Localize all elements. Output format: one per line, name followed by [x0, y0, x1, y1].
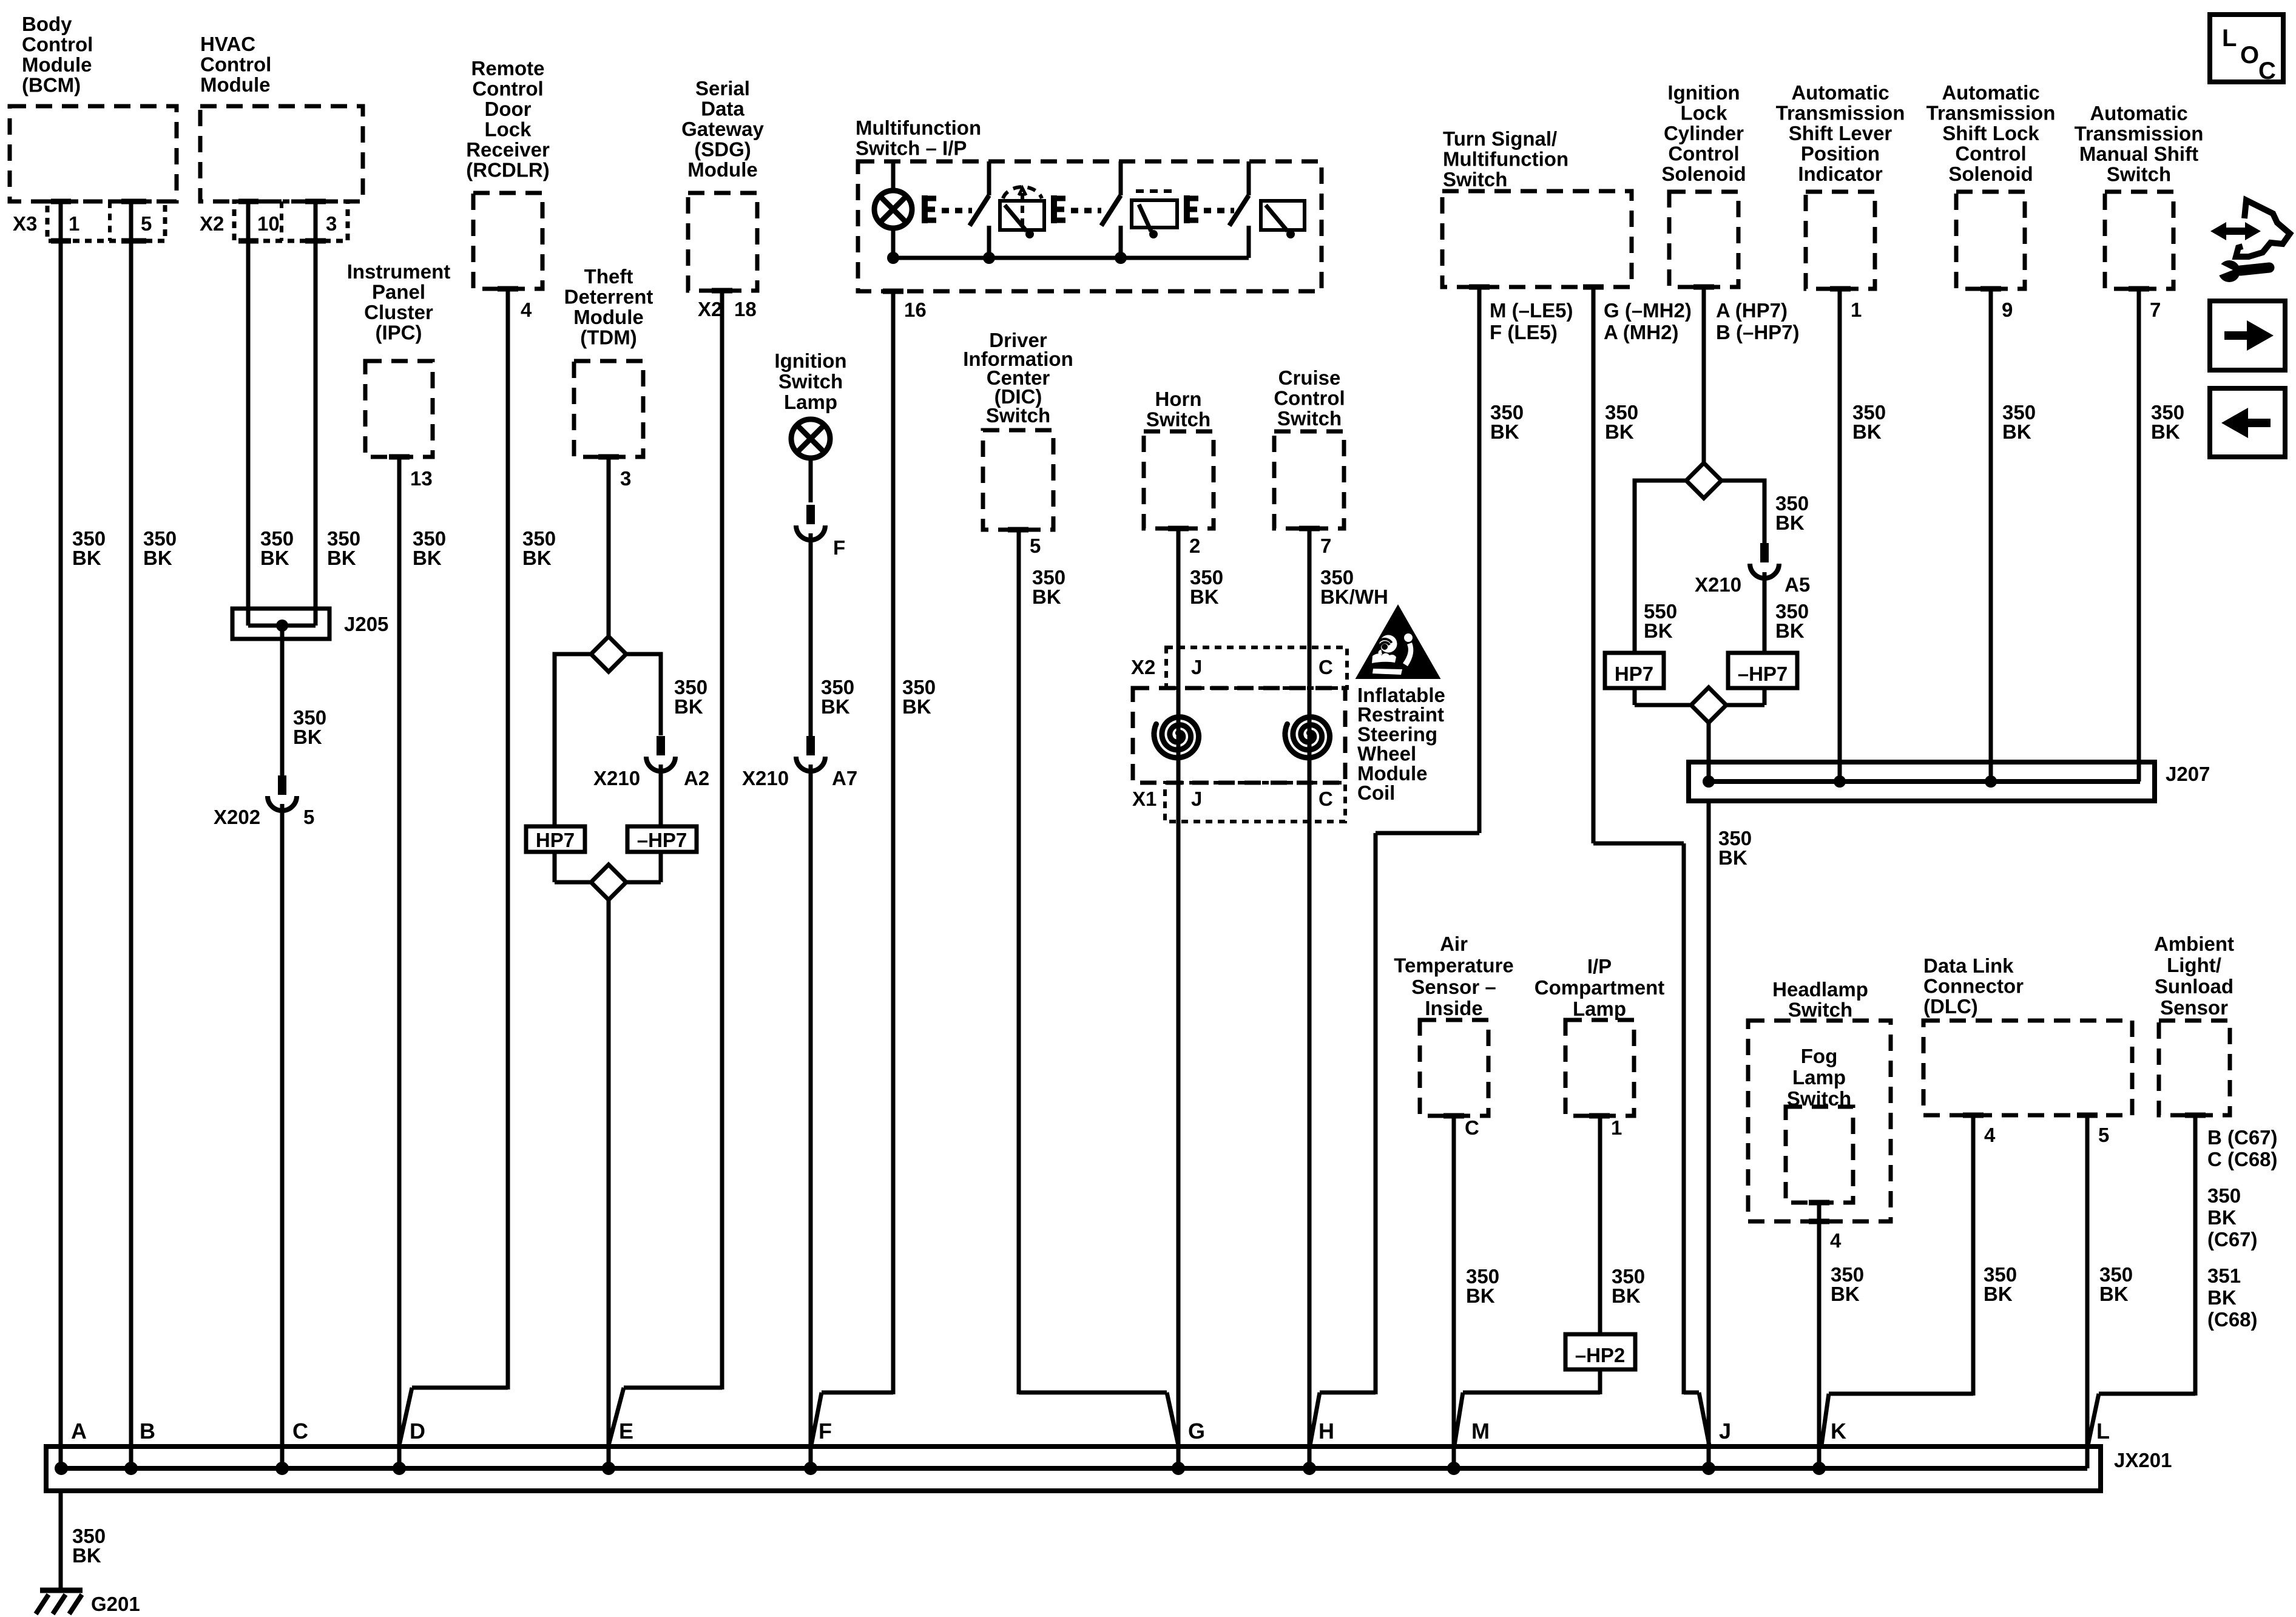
svg-text:J205: J205: [344, 613, 388, 635]
wire: JX201 to ground G201 (350 BK): [59, 1491, 63, 1590]
wire label 350 BK (right branch lower): [1775, 600, 1809, 642]
switch contact S3: [1229, 161, 1249, 258]
svg-text:Control: Control: [1955, 143, 2026, 165]
pin label 4 (RCDLR): [521, 299, 532, 321]
pin label 5 (DIC): [1030, 535, 1041, 557]
pin label 7 (cruise switch): [1320, 535, 1331, 557]
splice J205: [232, 609, 388, 775]
svg-text:X2: X2: [1131, 656, 1155, 678]
wire label 350 BK (DLC pin 5): [2099, 1263, 2133, 1305]
svg-text:Multifunction: Multifunction: [856, 116, 981, 139]
svg-text:–HP7: –HP7: [637, 829, 687, 851]
svg-text:9: 9: [2002, 299, 2013, 321]
wiper symbol 2 (dashed line above): [1132, 191, 1177, 238]
svg-text:Switch: Switch: [1277, 407, 1342, 430]
splice diamond on TDM ground wire: [591, 636, 626, 672]
wire label 350 BK (C67): [2207, 1184, 2258, 1251]
wire label 350 BK (I/P compartment lamp): [1612, 1265, 1645, 1307]
module box: Air Temperature Sensor - Inside: [1394, 933, 1513, 1116]
wire: DLC pin 5 to node L (350 BK): [2085, 1115, 2090, 1468]
svg-text:Transmission: Transmission: [1926, 102, 2056, 124]
svg-text:Temperature: Temperature: [1394, 954, 1513, 976]
svg-text:Sensor: Sensor: [2160, 996, 2228, 1019]
svg-text:1: 1: [1851, 299, 1862, 321]
splice diamond (ignition lock solenoid): [1686, 463, 1721, 498]
module box: Automatic Transmission Shift Lock Control Solenoid: [1926, 81, 2056, 289]
svg-text:Module: Module: [573, 306, 643, 328]
junction dot node H: [1303, 1462, 1316, 1475]
lower splice diamond (ignition lock): [1635, 687, 1764, 723]
wire label 350 BK (TS/MF switch G/A): [1605, 401, 1638, 443]
svg-text:Lock: Lock: [484, 118, 532, 141]
svg-text:X3: X3: [13, 212, 37, 235]
svg-text:Solenoid: Solenoid: [1948, 163, 2033, 185]
ground splice pack JX201: [46, 1447, 2172, 1491]
svg-text:Module: Module: [22, 53, 92, 76]
svg-text:K: K: [1831, 1419, 1846, 1443]
svg-text:3: 3: [326, 212, 337, 235]
svg-text:Serial: Serial: [695, 77, 750, 100]
svg-text:13: 13: [410, 467, 433, 490]
svg-text:I/P: I/P: [1587, 955, 1612, 977]
junction dot node A: [55, 1462, 68, 1475]
svg-text:Light/: Light/: [2167, 954, 2221, 976]
svg-text:(C67): (C67): [2207, 1228, 2258, 1251]
svg-text:BK: BK: [1775, 619, 1805, 642]
pin label 16 (multifunction switch): [904, 299, 927, 321]
svg-text:A2: A2: [684, 767, 709, 789]
wire: -HP2 jog to node M: [1454, 1369, 1600, 1445]
svg-text:BK: BK: [72, 547, 101, 569]
svg-text:HP7: HP7: [536, 829, 575, 851]
svg-text:HVAC: HVAC: [200, 33, 255, 55]
svg-text:351: 351: [2207, 1264, 2241, 1287]
wire label 350 BK (ground wire): [72, 1525, 106, 1567]
svg-text:Switch – I/P: Switch – I/P: [856, 137, 967, 160]
option box -HP7 (ignition lock): [1728, 653, 1797, 688]
wire: X210 A2 to -HP7 option box: [659, 765, 663, 826]
pin label B (C67) / C (C68) (ambient sensor): [2207, 1126, 2278, 1170]
svg-text:J: J: [1191, 656, 1202, 678]
wire: ATSLPI pin 1 to J207 (350 BK): [1838, 289, 1842, 781]
svg-text:(BCM): (BCM): [22, 74, 81, 96]
svg-text:X1: X1: [1132, 788, 1156, 810]
svg-text:Data Link: Data Link: [1923, 954, 2014, 977]
svg-text:Switch: Switch: [1146, 408, 1210, 431]
svg-text:Lamp: Lamp: [784, 391, 837, 413]
junction dot node K: [1812, 1462, 1826, 1475]
svg-text:7: 7: [2150, 299, 2161, 321]
pin label 13 (IPC): [410, 467, 433, 490]
svg-text:Switch: Switch: [1443, 168, 1507, 191]
pin label 4 (DLC): [1984, 1124, 1996, 1146]
node letter F: [819, 1419, 832, 1443]
module box: Ambient Light/Sunload Sensor: [2154, 933, 2234, 1115]
wire: HVAC pin 3 to splice J205 (350 BK): [314, 201, 318, 613]
svg-text:Cruise: Cruise: [1278, 366, 1341, 389]
svg-text:Deterrent: Deterrent: [564, 286, 653, 308]
option box -HP2: [1565, 1334, 1635, 1369]
junction dot node G: [1172, 1462, 1185, 1475]
svg-text:BK: BK: [1831, 1283, 1860, 1305]
svg-text:F: F: [819, 1419, 832, 1443]
svg-text:BK: BK: [1852, 420, 1882, 443]
wire label 350 BK (J205 output): [293, 706, 326, 748]
clockspring coil symbol (cruise circuit): [1285, 717, 1330, 758]
node letter L: [2096, 1419, 2110, 1443]
module box: Automatic Transmission Shift Lever Position Indicator: [1776, 81, 1905, 289]
svg-text:C: C: [292, 1419, 308, 1443]
svg-text:L: L: [2222, 25, 2237, 52]
wire: J207 output to node J (350 BK): [1707, 801, 1711, 1468]
wiper-washer symbol 1 (with dashed arc): [1000, 187, 1044, 238]
svg-text:Control: Control: [22, 33, 93, 56]
svg-text:A7: A7: [832, 767, 857, 789]
connector row X1 of steering wheel coil (pins J and C): [1132, 783, 1345, 822]
svg-text:M (–LE5): M (–LE5): [1490, 299, 1573, 322]
svg-text:–HP2: –HP2: [1575, 1344, 1626, 1366]
svg-text:D: D: [410, 1419, 425, 1443]
svg-text:–HP7: –HP7: [1738, 663, 1788, 685]
node letter E: [619, 1419, 633, 1443]
pin labels X2 18 (SDG): [698, 298, 757, 320]
wire: lower diamond into splice pack J207: [1707, 723, 1711, 781]
legend box: right arrow (continued on next page): [2210, 301, 2285, 370]
svg-text:3: 3: [620, 467, 631, 490]
wire label 350 BK (BCM pin 1): [72, 527, 106, 569]
svg-text:Inside: Inside: [1425, 997, 1482, 1019]
wire: I/P compartment lamp pin 1 to -HP2 (350 BK): [1598, 1116, 1602, 1334]
wiper symbol 3: [1261, 201, 1305, 238]
pin label 3 (TDM): [620, 467, 631, 490]
junction dot node M: [1447, 1462, 1460, 1475]
option box HP7 (ignition lock): [1605, 653, 1664, 688]
wire label 550 BK (left branch): [1644, 600, 1677, 642]
svg-text:Ignition: Ignition: [1667, 81, 1740, 104]
wire: diamond right branch to X210 A5 (350 BK): [1721, 481, 1764, 543]
junction dot node F: [804, 1462, 817, 1475]
wire: ignition lock solenoid pin A/B to splice diamond: [1702, 287, 1706, 463]
option box HP7 (left branch): [526, 826, 585, 852]
module box: Data Link Connector (DLC): [1923, 954, 2132, 1115]
svg-text:Data: Data: [701, 98, 745, 120]
wire: BCM pin 1 to node A (350 BK): [59, 201, 63, 1468]
module box: Theft Deterrent Module (TDM): [564, 265, 653, 457]
wire: IPC pin 13 to node D (350 BK): [397, 457, 402, 1468]
svg-text:BK: BK: [522, 547, 552, 569]
svg-text:Headlamp: Headlamp: [1772, 978, 1868, 1001]
svg-text:BK: BK: [2207, 1206, 2237, 1229]
svg-text:Cylinder: Cylinder: [1664, 122, 1744, 144]
wire label 350 BK (HVAC pin 10): [260, 527, 294, 569]
ground symbol G201: [36, 1590, 140, 1615]
svg-text:Connector: Connector: [1923, 975, 2024, 998]
wire: DIC pin 5 down and jog to node G (350 BK): [1019, 530, 1178, 1445]
svg-text:Turn Signal/: Turn Signal/: [1443, 127, 1557, 150]
svg-text:F: F: [833, 536, 845, 559]
switch contact S2: [1101, 161, 1121, 258]
svg-text:X210: X210: [742, 767, 789, 789]
title: Ignition Switch Lamp: [774, 349, 846, 413]
svg-text:Coil: Coil: [1357, 781, 1395, 804]
svg-text:5: 5: [141, 212, 152, 235]
svg-text:1: 1: [1611, 1116, 1622, 1139]
svg-text:Fog: Fog: [1801, 1045, 1837, 1067]
svg-text:B (–HP7): B (–HP7): [1716, 321, 1800, 343]
wire: ATMSS pin 7 to J207 (350 BK): [2137, 289, 2141, 781]
svg-text:5: 5: [1030, 535, 1041, 557]
svg-text:Gateway: Gateway: [681, 118, 764, 140]
wire label 350 BK (TS/MF switch M/F): [1490, 401, 1524, 443]
svg-text:M: M: [1471, 1419, 1490, 1443]
module box: Headlamp Switch: [1748, 978, 1891, 1221]
module box: Remote Control Door Lock Receiver (RCDLR): [466, 57, 550, 289]
svg-text:4: 4: [1830, 1229, 1842, 1252]
junction dot node D: [393, 1462, 406, 1475]
connector X3 of BCM with pins 1 and 5: [13, 201, 165, 241]
pin label C (air temperature sensor): [1465, 1116, 1479, 1139]
module box: Serial Data Gateway (SDG) Module: [681, 77, 764, 291]
wire label 350 BK (BCM pin 5): [143, 527, 177, 569]
inline connector X210 pin A7: [742, 736, 857, 789]
svg-text:Automatic: Automatic: [1942, 81, 2039, 104]
pin label 5 (DLC): [2098, 1124, 2109, 1146]
svg-text:HP7: HP7: [1615, 663, 1653, 685]
svg-text:Transmission: Transmission: [1776, 102, 1905, 124]
svg-text:Switch: Switch: [1788, 999, 1852, 1021]
svg-text:Sunload: Sunload: [2155, 975, 2234, 998]
node letter D: [410, 1419, 425, 1443]
svg-text:4: 4: [1984, 1124, 1996, 1146]
wire label 350 BK (HVAC pin 3): [327, 527, 360, 569]
wire: ambient light sensor down and jog to node L: [2088, 1115, 2195, 1445]
module box: Body Control Module (BCM): [10, 13, 177, 201]
svg-text:10: 10: [257, 212, 280, 235]
pin label 1 (I/P compartment lamp): [1611, 1116, 1622, 1139]
svg-text:BK: BK: [1032, 586, 1061, 608]
svg-text:BK: BK: [821, 695, 850, 718]
wire label 350 BK (J207 output): [1718, 827, 1752, 869]
node letter K: [1831, 1419, 1846, 1443]
module box: Fog Lamp Switch (inside headlamp switch): [1786, 1045, 1853, 1203]
wire: horn switch pin 2 to node G (350 BK): [1177, 528, 1181, 1468]
inline connector X210 pin A5: [1695, 543, 1810, 596]
wire label 350 BK (ignition lamp wire): [821, 676, 854, 718]
svg-text:Control: Control: [472, 78, 543, 100]
legend box LOC: [2210, 15, 2283, 84]
wire: air temperature sensor pin C to node M (350 BK): [1452, 1116, 1456, 1468]
svg-text:BK: BK: [2207, 1286, 2237, 1309]
svg-text:2: 2: [1189, 535, 1200, 557]
pin label 9 (ATSLCS): [2002, 299, 2013, 321]
wire label 350 BK (horn switch): [1190, 566, 1223, 608]
svg-text:Ignition: Ignition: [774, 349, 846, 372]
svg-text:Lamp: Lamp: [1573, 998, 1626, 1020]
svg-text:BK: BK: [413, 547, 442, 569]
svg-text:BK: BK: [72, 1544, 101, 1567]
svg-text:Switch: Switch: [986, 404, 1050, 427]
wire: diamond right branch to X210 A2 (350 BK): [626, 654, 661, 735]
inline connector X210 pin A2: [593, 736, 709, 789]
svg-text:C: C: [1465, 1116, 1479, 1139]
svg-text:BK: BK: [1190, 586, 1219, 608]
legend icon: steering column service (arrow, outline, wrench): [2210, 200, 2290, 282]
svg-text:Compartment: Compartment: [1535, 976, 1665, 999]
svg-text:350: 350: [2207, 1184, 2241, 1207]
svg-text:A (HP7): A (HP7): [1716, 299, 1788, 322]
svg-text:(DLC): (DLC): [1923, 995, 1978, 1018]
svg-text:BK: BK: [2002, 420, 2031, 443]
clockspring coil symbol (horn circuit): [1154, 717, 1199, 758]
svg-text:Ambient: Ambient: [2154, 933, 2234, 955]
svg-text:Control: Control: [1274, 387, 1345, 410]
svg-text:Receiver: Receiver: [466, 138, 550, 161]
lamp inside multifunction switch: [874, 161, 912, 258]
svg-text:BK: BK: [327, 547, 356, 569]
svg-text:(IPC): (IPC): [376, 322, 422, 344]
svg-text:(C68): (C68): [2207, 1308, 2258, 1331]
svg-text:J: J: [1719, 1419, 1731, 1443]
svg-text:BK: BK: [2099, 1283, 2129, 1305]
option box -HP7 (right branch): [627, 826, 697, 852]
module box: Cruise Control Switch: [1274, 366, 1345, 528]
module box: I/P Compartment Lamp: [1535, 955, 1665, 1116]
svg-text:E: E: [619, 1419, 633, 1443]
feed indicator E3 with dashed link: [1187, 195, 1234, 223]
svg-text:BK: BK: [2151, 420, 2180, 443]
svg-text:X2: X2: [698, 298, 722, 320]
internal bus wire of multifunction switch: [887, 252, 1249, 264]
wire label 350 BK (fog lamp switch): [1831, 1263, 1864, 1305]
svg-text:BK: BK: [293, 726, 322, 748]
module box: Driver Information Center (DIC) Switch: [963, 329, 1073, 530]
svg-text:Manual Shift: Manual Shift: [2079, 143, 2198, 165]
svg-text:C: C: [1319, 656, 1333, 678]
wire: multifunction switch pin 16 down and jog to node F (350 BK): [811, 291, 903, 1445]
svg-text:Shift Lever: Shift Lever: [1789, 122, 1893, 144]
wire label 350 BK/WH (cruise switch): [1320, 566, 1388, 608]
wire: X210 A7 to node F: [809, 765, 813, 1468]
node letter H: [1319, 1419, 1334, 1443]
svg-text:7: 7: [1320, 535, 1331, 557]
svg-text:F (LE5): F (LE5): [1490, 321, 1558, 343]
module box: Instrument Panel Cluster (IPC): [347, 260, 451, 457]
svg-text:BK: BK: [1644, 619, 1673, 642]
feed indicator E2 with dashed link: [1054, 195, 1101, 223]
svg-text:1: 1: [69, 212, 79, 235]
svg-text:Cluster: Cluster: [364, 301, 433, 323]
svg-text:A: A: [71, 1419, 87, 1443]
wire label 350 BK (ATSLCS): [2002, 401, 2036, 443]
module box: Ignition Lock Cylinder Control Solenoid: [1661, 81, 1746, 287]
svg-text:BK: BK: [1984, 1283, 2013, 1305]
junction dot node C: [275, 1462, 289, 1475]
module box: Horn Switch: [1144, 388, 1214, 528]
wire: diamond left branch to HP7: [555, 654, 591, 826]
svg-text:A5: A5: [1784, 573, 1810, 596]
svg-text:Sensor –: Sensor –: [1411, 976, 1496, 998]
ignition switch lamp symbol: [791, 419, 830, 502]
svg-text:X210: X210: [1695, 573, 1741, 596]
svg-text:G201: G201: [91, 1593, 140, 1615]
lower splice diamond joining HP7/-HP7: [555, 852, 661, 900]
svg-text:Theft: Theft: [584, 265, 633, 288]
svg-text:BK: BK: [1612, 1284, 1641, 1307]
svg-text:BK: BK: [143, 547, 172, 569]
svg-text:G: G: [1188, 1419, 1205, 1443]
svg-text:5: 5: [303, 806, 314, 828]
wire: HVAC pin 10 to splice J205 (350 BK): [246, 201, 251, 613]
svg-text:BK: BK: [1775, 511, 1805, 534]
wire: X210 A5 to -HP7 box (350 BK): [1763, 572, 1767, 653]
svg-text:X202: X202: [214, 806, 260, 828]
svg-text:B: B: [140, 1419, 155, 1443]
wire label 350 BK (IPC): [413, 527, 446, 569]
svg-text:18: 18: [734, 298, 757, 320]
svg-text:Multifunction: Multifunction: [1443, 148, 1568, 170]
svg-text:Shift Lock: Shift Lock: [1942, 122, 2039, 144]
node letter J: [1719, 1419, 1731, 1443]
wire label 350 BK (air temperature sensor): [1466, 1265, 1499, 1307]
svg-text:BK: BK: [1490, 420, 1519, 443]
wire: cruise switch pin 7 to node H (350 BK/WH): [1308, 528, 1312, 1468]
junction dot node E: [602, 1462, 615, 1475]
svg-text:Switch: Switch: [2107, 163, 2171, 186]
svg-text:Panel: Panel: [372, 281, 425, 303]
wire: TDM pin 3 to upper splice diamond: [607, 457, 611, 638]
splice pack J207: [1689, 762, 2210, 801]
svg-text:(RCDLR): (RCDLR): [466, 159, 549, 181]
svg-text:Air: Air: [1440, 933, 1468, 955]
svg-text:BK/WH: BK/WH: [1320, 586, 1388, 608]
svg-text:(TDM): (TDM): [580, 326, 636, 349]
svg-text:Body: Body: [22, 13, 72, 35]
wire label 350 BK (TDM right branch): [674, 676, 707, 718]
wire: X202 to node C: [280, 804, 285, 1468]
svg-text:Module: Module: [687, 158, 757, 181]
pin label 7 (ATMSS): [2150, 299, 2161, 321]
svg-text:Automatic: Automatic: [1791, 81, 1889, 104]
inline connector F (ignition switch lamp): [796, 505, 845, 559]
svg-text:(SDG): (SDG): [694, 138, 751, 161]
svg-text:Horn: Horn: [1155, 388, 1202, 410]
svg-text:BK: BK: [902, 695, 931, 718]
pin label 4 (fog lamp switch): [1830, 1229, 1842, 1252]
svg-text:B (C67): B (C67): [2207, 1126, 2278, 1149]
svg-text:BK: BK: [260, 547, 289, 569]
node letter B: [140, 1419, 155, 1443]
svg-text:5: 5: [2098, 1124, 2109, 1146]
node letter C: [292, 1419, 308, 1443]
pin label A (HP7) / B (-HP7): [1716, 299, 1800, 343]
svg-text:16: 16: [904, 299, 927, 321]
svg-text:BK: BK: [1605, 420, 1634, 443]
wire: lower diamond to node E: [607, 900, 611, 1468]
wire label 350 BK (ATSLPI): [1852, 401, 1886, 443]
junction dot node J: [1702, 1462, 1715, 1475]
wire: fog lamp switch pin 4 to node K (350 BK): [1809, 1203, 1829, 1468]
wire: RCDLR pin 4 down and jog to node D (350 BK): [399, 289, 508, 1445]
svg-text:A (MH2): A (MH2): [1604, 321, 1678, 343]
wire: diamond left branch to HP7 box (550 BK): [1635, 481, 1686, 653]
svg-text:J207: J207: [2166, 763, 2210, 785]
svg-text:G (–MH2): G (–MH2): [1604, 299, 1692, 322]
pin label 1 (ATSLPI): [1851, 299, 1862, 321]
svg-text:Control: Control: [200, 53, 271, 76]
node letter M: [1471, 1419, 1490, 1443]
feed indicator E1 with dashed link: [925, 195, 972, 223]
module box: Turn Signal/Multifunction Switch: [1442, 127, 1632, 287]
